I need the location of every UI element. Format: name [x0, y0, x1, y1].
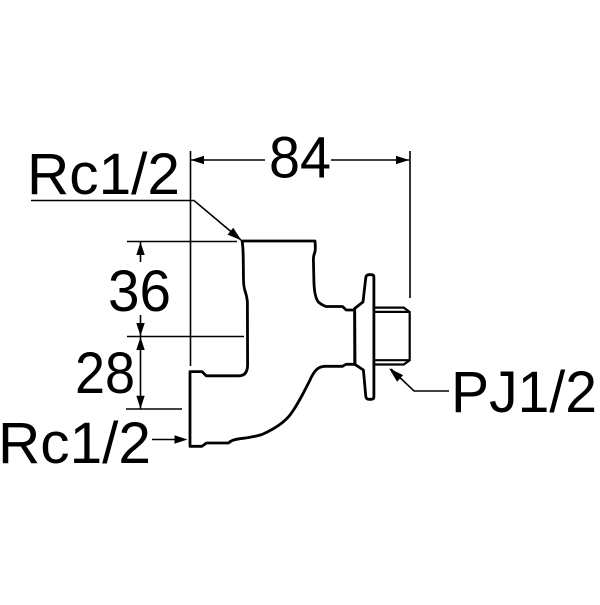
svg-text:36: 36: [108, 259, 171, 324]
svg-text:Rc1/2: Rc1/2: [0, 411, 151, 476]
svg-text:84: 84: [269, 126, 331, 191]
svg-text:PJ1/2: PJ1/2: [451, 360, 597, 425]
svg-text:Rc1/2: Rc1/2: [27, 142, 180, 207]
svg-text:28: 28: [75, 341, 135, 406]
